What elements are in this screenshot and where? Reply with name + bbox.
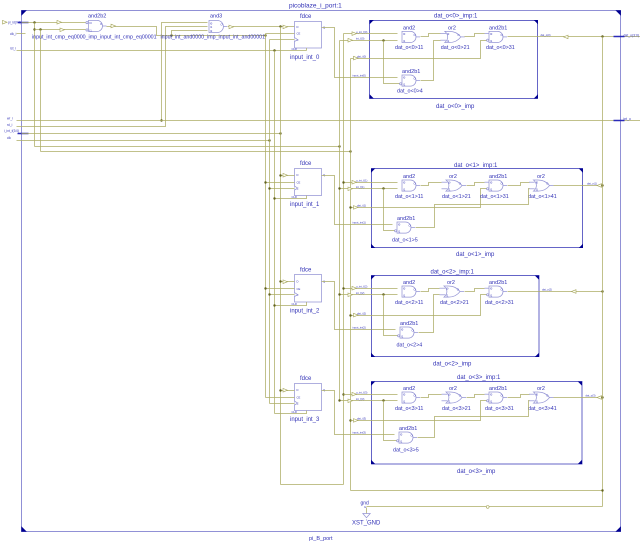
- wire block3 pin1 u_int_f(3): [344, 390, 398, 396]
- svg-text:dat_o<0>4: dat_o<0>4: [397, 89, 423, 95]
- svg-text:or2: or2: [449, 386, 457, 392]
- svg-text:dat_o<2>11: dat_o<2>11: [395, 300, 423, 306]
- svg-text:dat_o<1>11: dat_o<1>11: [395, 194, 423, 200]
- wire horizontal y=151.6: [41, 151, 351, 153]
- node junction (280.2,175.2): [279, 174, 281, 176]
- svg-text:dat_o(2): dat_o(2): [542, 288, 552, 292]
- svg-text:O: O: [412, 329, 414, 333]
- node junction at (34.5,22.2): [33, 21, 35, 23]
- svg-text:input_int(0): input_int(0): [353, 73, 367, 77]
- no-connect marker on gnd wire: [486, 506, 489, 509]
- svg-text:dat_o<0>21: dat_o<0>21: [441, 45, 470, 51]
- and-gate dat_o<0>31 and2b1: [485, 26, 515, 52]
- or-gate dat_o<3>21 or2: [442, 386, 471, 412]
- node junction (383.3,40.2): [382, 39, 384, 41]
- svg-text:O: O: [414, 33, 416, 37]
- and-gate dat_o<1>31 and2b1: [480, 174, 509, 200]
- corner marker top-left: [21, 10, 27, 16]
- node junction (339.3,188.8): [338, 187, 340, 189]
- wire D rail lower segment corner into fdce3: [283, 388, 288, 392]
- wire fdce3 CE from rail: [266, 397, 295, 399]
- node junction (339.3,294.8): [338, 293, 340, 295]
- node junction D-rail top (280.2,26.9): [279, 25, 281, 27]
- svg-text:dat_o<3>21: dat_o<3>21: [442, 406, 471, 412]
- wire block2 pin2 branch to lower and2b1 bubble: [384, 295, 398, 336]
- node junction (343.5,182.2): [342, 181, 344, 183]
- wire or2 out to and2b1 I0: [465, 34, 485, 37]
- corner marker bottom-right: [615, 526, 621, 532]
- svg-text:input_int(3): input_int(3): [353, 430, 367, 434]
- wire fdce2 CLR from rail: [275, 302, 307, 306]
- wire block3 pin4 input_int(3) label: [353, 430, 395, 434]
- svg-text:and2: and2: [403, 174, 415, 180]
- wire block0 pin2 int_f(0): [340, 36, 398, 42]
- wire fdce2 C from rail: [270, 294, 295, 296]
- and-gate dat_o<3>5 and2b1 lower: [393, 426, 419, 453]
- wire and2b1 out to or2b I0: [508, 183, 530, 186]
- wire block2 pin4 input_int(2) label: [353, 325, 396, 329]
- and-gate dat_o<1>11 and2: [395, 174, 423, 200]
- node junction (265.3,288.8): [264, 287, 266, 289]
- svg-text:O: O: [414, 288, 416, 292]
- wire fdce2 Q to dat block2 pin4: [322, 282, 372, 330]
- wire fdce1 C from rail: [270, 188, 295, 190]
- node junction (602.75,185.5): [601, 184, 603, 186]
- svg-text:input_int_and0000_imp_input_in: input_int_and0000_imp_input_int_and00001: [161, 34, 266, 40]
- flip-flop FD2 fdce input_int_2: [290, 268, 325, 315]
- or-gate dat_o<0>21 or2: [440, 26, 469, 52]
- D rail vertical x=280.2: [280, 27, 282, 485]
- arrow on wire B: [60, 28, 65, 32]
- input port clk stub: [10, 32, 26, 36]
- svg-text:picoblaze_i_port:1: picoblaze_i_port:1: [289, 3, 342, 10]
- long wire y=140 to C rail: [22, 140, 270, 142]
- wire horizontal y=146.2: [35, 146, 340, 148]
- svg-text:O: O: [414, 182, 416, 186]
- wire and2 out to or2 I0: [421, 289, 440, 292]
- wire branch down x=40: [40, 30, 42, 152]
- pin1 net rail x=343.5: [343, 34, 345, 485]
- svg-text:and2b1: and2b1: [489, 174, 507, 180]
- svg-text:dat_i(2): dat_i(2): [357, 311, 366, 315]
- node junction at (40,29.8): [39, 28, 41, 30]
- svg-text:O: O: [546, 182, 548, 186]
- svg-text:dat_o<2>31: dat_o<2>31: [485, 300, 514, 306]
- svg-text:or2: or2: [537, 386, 545, 392]
- svg-text:and2: and2: [403, 280, 415, 286]
- svg-text:O: O: [409, 224, 411, 228]
- wire fdce3 D from rail: [281, 390, 295, 392]
- wire block0 pin2 branch to lower and2b1 bubble: [384, 41, 400, 84]
- node junction (269.8,140): [268, 139, 270, 141]
- wire fdce3 Q to dat block3 pin4: [322, 391, 372, 435]
- svg-text:input_int_1: input_int_1: [290, 202, 320, 208]
- svg-text:dat_o<1>_imp: dat_o<1>_imp: [456, 252, 495, 258]
- wire and3 input I0 from y120 line: [162, 23, 208, 121]
- node junction (339.3,400.8): [338, 399, 340, 401]
- corner marker bottom-left: [21, 526, 27, 532]
- node junction at (265.3,35.6): [264, 34, 266, 36]
- svg-text:O: O: [414, 394, 416, 398]
- wire and2 out to or2 I0: [421, 395, 442, 398]
- node junction (602.75,36.9): [601, 35, 603, 37]
- svg-text:input_int_2: input_int_2: [290, 309, 320, 315]
- wire and3 output to fdce0 D: [228, 26, 295, 28]
- wire fdce1 CLR from rail: [275, 196, 307, 199]
- wire dat_o bus trunk x=602.75: [602, 37, 604, 507]
- wire fdce0 C from rail: [270, 39, 295, 41]
- long wire y=120.4 left pin to int_o port: [22, 120, 640, 122]
- wire lower and2b1 out up to or2 I1: [421, 41, 441, 81]
- flip-flop FD1 fdce input_int_1: [290, 161, 325, 208]
- wire block0 pin3 dat_i(0): [351, 41, 487, 60]
- block outline dat_o<3>_imp:1: [371, 375, 582, 475]
- and-gate dat_o<3>11 and2: [395, 386, 423, 412]
- svg-text:input_int(1): input_int(1): [353, 220, 367, 224]
- node junction (383.3,294.8): [382, 293, 384, 295]
- svg-text:dat_o<3>5: dat_o<3>5: [393, 447, 419, 453]
- svg-text:O: O: [501, 182, 503, 186]
- svg-text:and2b1: and2b1: [402, 69, 420, 75]
- arrow at fdce0 D pin: [283, 25, 288, 29]
- node junction (280.2,281.7): [279, 280, 281, 282]
- wire fdce0 Q to dat block0 pin4: [322, 28, 370, 78]
- output port dat_o(3:0): [614, 33, 640, 37]
- svg-text:D: D: [297, 280, 299, 284]
- svg-text:dat_o<2>_imp: dat_o<2>_imp: [433, 361, 472, 367]
- svg-text:rst_i: rst_i: [10, 47, 16, 51]
- svg-text:dat_o<2>_imp:1: dat_o<2>_imp:1: [431, 269, 475, 275]
- node junction (274.7,305.5): [273, 304, 275, 306]
- svg-text:and2b1: and2b1: [489, 26, 507, 32]
- svg-text:clk_i: clk_i: [10, 32, 17, 36]
- long wire y=133.2 bus line to D rail: [22, 133, 281, 135]
- wire block1 pin2 branch to lower and2b1 bubble: [384, 189, 395, 231]
- and-gate U1 and2b2: [86, 14, 107, 33]
- svg-text:O: O: [457, 288, 459, 292]
- svg-text:u_int_f(1): u_int_f(1): [356, 178, 367, 182]
- node junction fdce3 D tap (280.2,390.2): [279, 389, 281, 391]
- svg-text:int_f(1): int_f(1): [356, 185, 364, 189]
- wire block1 pin4 input_int(1) label: [353, 220, 393, 224]
- node junction (343.5,288.2): [342, 287, 344, 289]
- svg-text:O: O: [411, 434, 413, 438]
- svg-text:CE: CE: [297, 180, 301, 184]
- wire and2b1 out to or2b I0: [508, 395, 530, 398]
- arrow at fdce1 D pin: [283, 173, 288, 177]
- wire and3 input I2 from y125 channel line: [172, 31, 208, 36]
- svg-text:input_int_cmp_eq0000_imp_input: input_int_cmp_eq0000_imp_input_int_cmp_e…: [32, 34, 157, 40]
- svg-text:and2b1: and2b1: [489, 386, 507, 392]
- node junction (274.7,198.9): [273, 197, 275, 199]
- wire fdce1 Q to dat block1 pin4: [322, 176, 372, 225]
- input port pin y140: [7, 136, 22, 141]
- wire block1 output dat_o(1): [554, 182, 603, 188]
- svg-text:dat_i(0): dat_i(0): [357, 54, 366, 58]
- svg-text:O: O: [221, 23, 223, 27]
- node junction (269.8,188.1): [268, 187, 270, 189]
- svg-text:and2b1: and2b1: [400, 321, 418, 327]
- gnd net rail x=350: [350, 59, 352, 491]
- svg-text:fdce: fdce: [300, 14, 312, 20]
- wire fdce3 C from rail: [270, 403, 295, 405]
- node junction (343.5,394.2): [342, 393, 344, 395]
- CE rail vertical x=265.3: [265, 34, 267, 398]
- svg-text:O: O: [414, 77, 416, 81]
- and-gate dat_o<2>11 and2: [395, 280, 423, 306]
- wire to and2b2 input B: [35, 29, 86, 31]
- node junction (383.3,188.8): [382, 187, 384, 189]
- pin2 net rail x=339.3: [339, 41, 341, 401]
- and-gate dat_o<2>31 and2b1: [485, 280, 514, 306]
- svg-text:int_f(0): int_f(0): [356, 36, 364, 40]
- node junction (347.2,207.4): [349, 206, 351, 208]
- svg-text:u_int_f(3): u_int_f(3): [356, 390, 367, 394]
- wire reset y=50.5 to fdce0 CLR: [22, 50, 307, 52]
- svg-text:and3: and3: [210, 14, 222, 20]
- svg-text:dat_o<0>11: dat_o<0>11: [395, 45, 423, 51]
- block outline dat_o<2>_imp:1: [371, 269, 539, 367]
- svg-text:D: D: [297, 173, 299, 177]
- svg-text:and2b2: and2b2: [88, 14, 106, 20]
- svg-text:and2b1: and2b1: [399, 426, 417, 432]
- wire and3 input I1 from y126 line: [22, 27, 208, 127]
- corner marker top-right: [615, 10, 621, 16]
- svg-text:or2: or2: [449, 174, 457, 180]
- wire or2 out to and2b1 I0: [465, 289, 485, 292]
- node junction at (171,35.6): [170, 34, 172, 36]
- svg-text:dat_o<2>21: dat_o<2>21: [440, 300, 469, 306]
- node junction (347.2,315.1): [349, 314, 351, 316]
- svg-text:O: O: [459, 394, 461, 398]
- svg-text:u_int_f(2): u_int_f(2): [356, 284, 367, 288]
- svg-text:XST_GND: XST_GND: [352, 521, 381, 527]
- svg-text:or2: or2: [537, 174, 545, 180]
- and-gate dat_o<0>4 and2b1 lower: [397, 69, 423, 94]
- svg-text:i_int_f(3:0): i_int_f(3:0): [4, 129, 19, 133]
- svg-text:clk: clk: [7, 136, 11, 140]
- input port pi_id(7:0): [3, 20, 29, 24]
- wire fdce0 CLR entry: [306, 48, 308, 51]
- svg-text:O: O: [459, 182, 461, 186]
- svg-text:dat_o<1>31: dat_o<1>31: [480, 194, 509, 200]
- wire block1 pin1 u_int_f(1): [344, 178, 398, 184]
- svg-text:pi_B_port: pi_B_port: [309, 536, 333, 542]
- svg-text:and2: and2: [403, 26, 415, 32]
- or-gate dat_o<3>41 or2: [528, 386, 557, 412]
- svg-text:fdce: fdce: [300, 161, 312, 167]
- svg-text:dat_o<3>_imp:1: dat_o<3>_imp:1: [457, 375, 501, 381]
- wire block2 output dat_o(2): [508, 288, 603, 294]
- wire or2 out to and2b1 I0: [467, 395, 485, 398]
- arrow on and3 output: [229, 25, 234, 29]
- node junction at (339.3,146.2): [338, 145, 340, 147]
- svg-text:D: D: [297, 25, 299, 29]
- block outline dat_o<1>_imp:1: [371, 163, 583, 258]
- svg-text:dat_o<0>31: dat_o<0>31: [486, 45, 515, 51]
- svg-text:dat_o<3>31: dat_o<3>31: [485, 406, 514, 412]
- svg-text:dat_o<0>_imp:1: dat_o<0>_imp:1: [434, 13, 478, 19]
- svg-text:dat_o<1>21: dat_o<1>21: [442, 194, 471, 200]
- or-gate dat_o<1>41 or2: [528, 174, 557, 200]
- wire fdce1 D from rail: [281, 175, 295, 177]
- svg-text:or2: or2: [447, 280, 455, 286]
- input port reset: [10, 47, 22, 51]
- wire block3 pin3 dat_i(3): [351, 401, 487, 423]
- svg-text:dat_o<1>5: dat_o<1>5: [392, 238, 418, 244]
- svg-text:or2: or2: [448, 26, 456, 32]
- svg-text:CE: CE: [297, 287, 301, 291]
- svg-text:dat_o(1): dat_o(1): [587, 182, 597, 186]
- node junction at (161,120.4): [160, 119, 162, 121]
- svg-text:O: O: [501, 33, 503, 37]
- svg-text:O: O: [501, 288, 503, 292]
- wire block2 pin1 u_int_f(2): [344, 284, 398, 290]
- input port pin y126: [7, 123, 22, 127]
- wire block2 pin3 dat_i(2): [351, 295, 487, 317]
- wire lower and2b1 out to or2b I1: [416, 189, 530, 228]
- and-gate U2 and3: [209, 14, 227, 34]
- svg-text:int_f(3): int_f(3): [356, 397, 364, 401]
- wire gnd to trunk: [367, 506, 603, 508]
- wire block3 pin2 int_f(3): [340, 397, 398, 403]
- C rail vertical x=269.8: [269, 40, 271, 404]
- arrow at fdce2 D pin: [283, 280, 288, 284]
- svg-text:dat_o(3): dat_o(3): [586, 394, 596, 398]
- input port bus i_int_f(3:0): [4, 129, 29, 133]
- node junction (383.3,400.8): [382, 399, 384, 401]
- node junction at (350,151.6): [349, 150, 351, 152]
- or-gate dat_o<2>21 or2: [440, 280, 469, 306]
- node junction (280.2,133.2): [279, 132, 281, 134]
- wire and2b2 output to CE rail: [107, 27, 266, 36]
- svg-text:input_int_3: input_int_3: [290, 417, 320, 423]
- svg-text:dat_o<3>41: dat_o<3>41: [528, 406, 557, 412]
- arrow on and2b2 output: [111, 24, 116, 28]
- wire fdce0 CE from rail: [266, 33, 295, 35]
- wire pi_id bus to and2b2 input A: [22, 22, 86, 24]
- svg-text:CLR: CLR: [292, 47, 297, 51]
- wire and2 out to or2 I0: [421, 34, 441, 37]
- flip-flop FD3 fdce input_int_3: [290, 376, 325, 423]
- wire fdce2 D from rail: [281, 281, 295, 283]
- svg-text:input_int_0: input_int_0: [290, 55, 320, 61]
- wire block2 pin2 int_f(2): [340, 291, 398, 297]
- wire block3 output dat_o(3): [554, 394, 603, 400]
- node junction (350.5,420.5): [349, 419, 351, 421]
- svg-text:rd_i: rd_i: [7, 123, 13, 127]
- svg-text:wr_i: wr_i: [7, 117, 13, 121]
- svg-text:int_o: int_o: [624, 117, 631, 121]
- svg-text:CE: CE: [297, 395, 301, 399]
- flip-flop FD0 fdce input_int_0: [290, 14, 325, 61]
- svg-text:D: D: [297, 388, 299, 392]
- node junction at (34.5,29.8): [33, 28, 35, 30]
- svg-text:dat_o<3>11: dat_o<3>11: [395, 406, 423, 412]
- wire block0 pin1 u_int_f(0): [344, 30, 398, 36]
- svg-text:dat_o<3>_imp: dat_o<3>_imp: [457, 469, 496, 475]
- block outline dat_o<0>_imp:1: [370, 13, 539, 110]
- node junction (602.75,291.5): [601, 290, 603, 292]
- svg-text:O: O: [501, 394, 503, 398]
- svg-text:input_int(2): input_int(2): [353, 325, 367, 329]
- and-gate dat_o<0>11 and2: [395, 26, 423, 52]
- svg-text:O: O: [546, 394, 548, 398]
- svg-text:fdce: fdce: [300, 268, 312, 274]
- svg-text:dat_o(0): dat_o(0): [541, 33, 551, 37]
- input port pin y120: [7, 117, 22, 121]
- svg-text:dat_o(3:0): dat_o(3:0): [624, 33, 639, 37]
- or-gate dat_o<1>21 or2: [442, 174, 471, 200]
- svg-text:dat_o<1>_imp:1: dat_o<1>_imp:1: [454, 163, 498, 169]
- gnd XST_GND symbol: [352, 501, 381, 527]
- node junction (269.8,294.6): [268, 293, 270, 295]
- wire block0 pin4 input_int(0) label: [353, 73, 398, 77]
- svg-text:dat_i(1): dat_i(1): [357, 204, 366, 208]
- svg-text:dat_o<2>4: dat_o<2>4: [397, 342, 423, 348]
- svg-text:dat_o<1>41: dat_o<1>41: [528, 194, 557, 200]
- wire block1 pin3 dat_i(1): [351, 189, 487, 210]
- svg-text:u_int_f(0): u_int_f(0): [356, 30, 367, 34]
- wire lower and2b1 out to or2b I1: [418, 401, 530, 438]
- CLR rail vertical x=274.7: [274, 51, 276, 414]
- node junction (265.3,182.3): [264, 181, 266, 183]
- svg-text:O: O: [100, 22, 102, 26]
- and-gate dat_o<3>31 and2b1: [485, 386, 514, 412]
- arrow on wire A: [57, 20, 62, 24]
- svg-text:and2: and2: [403, 386, 415, 392]
- svg-text:int_f(2): int_f(2): [356, 291, 364, 295]
- output port int_o: [614, 117, 631, 121]
- wire and2 out to or2 I0: [421, 183, 442, 186]
- svg-text:dat_o<0>_imp: dat_o<0>_imp: [436, 104, 475, 110]
- bottom U wire pin2-net to D-net y=484.9: [281, 484, 344, 486]
- wire or2 out to and2b1 I0: [467, 183, 485, 186]
- wire fdce3 CLR from rail: [275, 411, 307, 414]
- svg-text:CE: CE: [297, 32, 301, 36]
- svg-text:and2b1: and2b1: [397, 216, 415, 222]
- node junction (602.75,397.5): [601, 396, 603, 398]
- wire branch down x=34.5: [34, 23, 36, 147]
- svg-text:G: G: [364, 505, 366, 509]
- svg-text:O: O: [458, 33, 460, 37]
- wire block3 pin2 branch to lower and2b1 bubble: [384, 401, 397, 441]
- svg-text:dat_i(3): dat_i(3): [357, 417, 366, 421]
- bottom wire gnd-net to trunk y=490.2: [351, 490, 603, 492]
- node junction (274.7,50.5): [273, 49, 275, 51]
- wire block1 pin2 int_f(1): [340, 185, 398, 191]
- and-gate dat_o<2>4 and2b1 lower: [397, 321, 423, 348]
- and-gate dat_o<1>5 and2b1 lower: [392, 216, 418, 243]
- svg-text:fdce: fdce: [300, 376, 312, 382]
- wire lower and2b1 out up to or2 I1: [419, 295, 440, 333]
- svg-text:and2b1: and2b1: [489, 280, 507, 286]
- wire block0 output dat_o(0): [508, 33, 614, 39]
- wire fdce2 CE from rail: [266, 288, 295, 290]
- node junction (602.75,490.2): [601, 489, 603, 491]
- wire fdce1 CE from rail: [266, 182, 295, 184]
